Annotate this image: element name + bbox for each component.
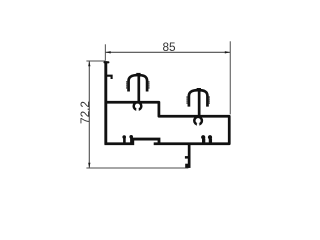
extension line top of 72.2: [86, 60, 105, 62]
main outline: shelf1, step, shelf2, right wall, bottom right: [105, 102, 229, 143]
ring clip 1 under shelf1: [134, 102, 142, 112]
hook pair 1 on bottom wall: [122, 135, 133, 143]
bottom hook leg: [185, 144, 191, 168]
anchor clip 1: [126, 74, 150, 102]
hook pair 2 on bottom right wall: [201, 135, 212, 143]
dimension line 85: [105, 51, 230, 53]
extension line right of 85: [229, 41, 231, 114]
extension line left of 85: [104, 44, 106, 60]
anchor clip 2: [186, 89, 210, 117]
arrow bottom of dim 72.2: [88, 163, 90, 168]
profile left wall: [104, 61, 107, 144]
profile top tick: [105, 61, 109, 63]
arrow top of dim 72.2: [88, 61, 90, 66]
arrow right of dim 85: [225, 51, 230, 53]
bottom wall lower segment A: [105, 139, 160, 144]
dimension line 72.2: [88, 61, 90, 168]
glazing nub on left wall: [107, 76, 112, 79]
extension line bottom of 72.2: [86, 167, 188, 169]
svg-text:85: 85: [162, 40, 176, 54]
arrow left of dim 85: [106, 51, 111, 53]
svg-text:72.2: 72.2: [78, 101, 92, 124]
ring clip 2 under shelf2: [194, 117, 202, 127]
